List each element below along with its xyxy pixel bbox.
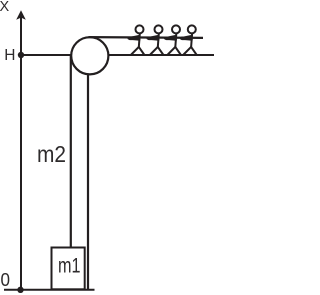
person 1 pulling rope [129, 25, 145, 54]
svg-text:m1: m1 [58, 254, 81, 278]
person 4 pulling rope [181, 25, 197, 54]
node axis arrowhead [16, 10, 26, 19]
person 2 pulling rope [148, 25, 164, 54]
wire ground line at bottom [4, 289, 95, 291]
svg-text:0: 0 [1, 270, 11, 290]
svg-text:H: H [4, 47, 15, 64]
wire rope horizontal from pulley top to people [89, 36, 204, 39]
wire horizontal guide line at H and platform line [21, 54, 214, 56]
wire pulley support pole [87, 56, 89, 289]
svg-text:m2: m2 [37, 141, 66, 167]
pulley wheel [71, 37, 108, 74]
node origin dot [17, 287, 23, 293]
svg-text:X: X [0, 0, 10, 15]
block m1 [52, 248, 85, 290]
node H dot [18, 52, 24, 58]
person 3 pulling rope [165, 25, 181, 54]
wire vertical rope from pulley to block m1 [70, 55, 72, 250]
node X axis vertical line [20, 16, 22, 290]
